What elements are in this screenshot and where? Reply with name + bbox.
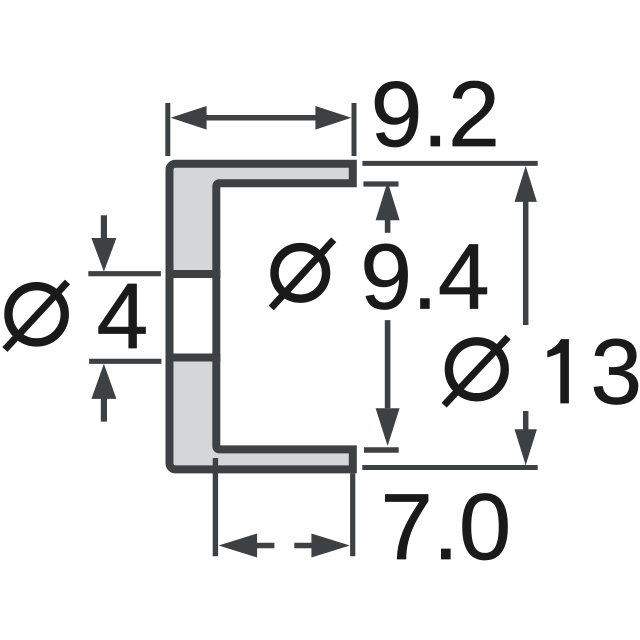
dimension 9.2: extension line right [352,103,357,156]
dimension Ø13: dimension line upper segment [523,200,529,325]
dimension Ø4: diameter symbol slash [5,282,68,350]
svg-text:7.0: 7.0 [381,474,512,579]
dimension Ø9.4: arrowhead down [376,408,400,446]
dimension 7.0: extension line right [350,473,355,556]
dimension 9.2: arrowhead right [315,106,351,130]
dimension Ø13: dimension line lower segment [523,411,529,431]
dimension Ø9.4: extension tick top [363,181,398,186]
dimension Ø4: extension line top [88,271,161,276]
dimension 9.2: arrowhead left [171,106,207,130]
dimension Ø9.4: upper stem [385,219,391,233]
svg-text:9.4: 9.4 [360,225,489,329]
dimension Ø4: arrowhead up [91,364,116,399]
dimension 7.0: extension line left [213,458,218,556]
dimension Ø4: extension line bottom [89,359,161,364]
dimension 7.0: arrowhead left [219,534,258,558]
dimension Ø4: diameter symbol circle [8,286,64,342]
hole window in left arm [174,274,213,358]
svg-text:9.2: 9.2 [371,62,500,166]
dimension 7.0: dimension line left segment [256,543,274,549]
svg-text:4: 4 [97,264,149,368]
svg-text:3: 3 [590,320,640,424]
dimension Ø9.4: lower stem [385,320,391,408]
dimension 7.0: dimension line right segment [294,543,314,549]
dimension Ø13: diameter symbol circle [449,341,505,397]
part body: C-shaped clip cross-section [170,164,353,470]
dimension Ø13: arrowhead down [515,429,537,465]
dimension Ø4: lower stem [101,398,107,422]
dimension Ø4: upper stem [101,215,107,239]
dimension Ø9.4: diameter symbol circle [275,247,327,299]
dimension Ø9.4: diameter symbol slash [271,240,334,308]
dimension Ø13: diameter symbol slash [444,337,508,405]
dimension Ø13: extension line top [362,161,537,166]
dimension 7.0: arrowhead right [311,534,350,558]
dimension 9.2: extension line left [165,103,170,156]
dimension Ø13: value label digit 1 [547,339,569,403]
dimension Ø9.4: extension tick bottom [364,447,399,453]
hole separator line upper [166,270,221,278]
dimension Ø13: extension line bottom [362,465,537,470]
dimension Ø9.4: arrowhead up [376,182,400,221]
dimension 9.2: dimension line [202,115,320,121]
hole separator line lower [166,354,221,362]
dimension Ø13: arrowhead up [515,166,537,202]
dimension Ø4: arrowhead down [91,238,116,272]
